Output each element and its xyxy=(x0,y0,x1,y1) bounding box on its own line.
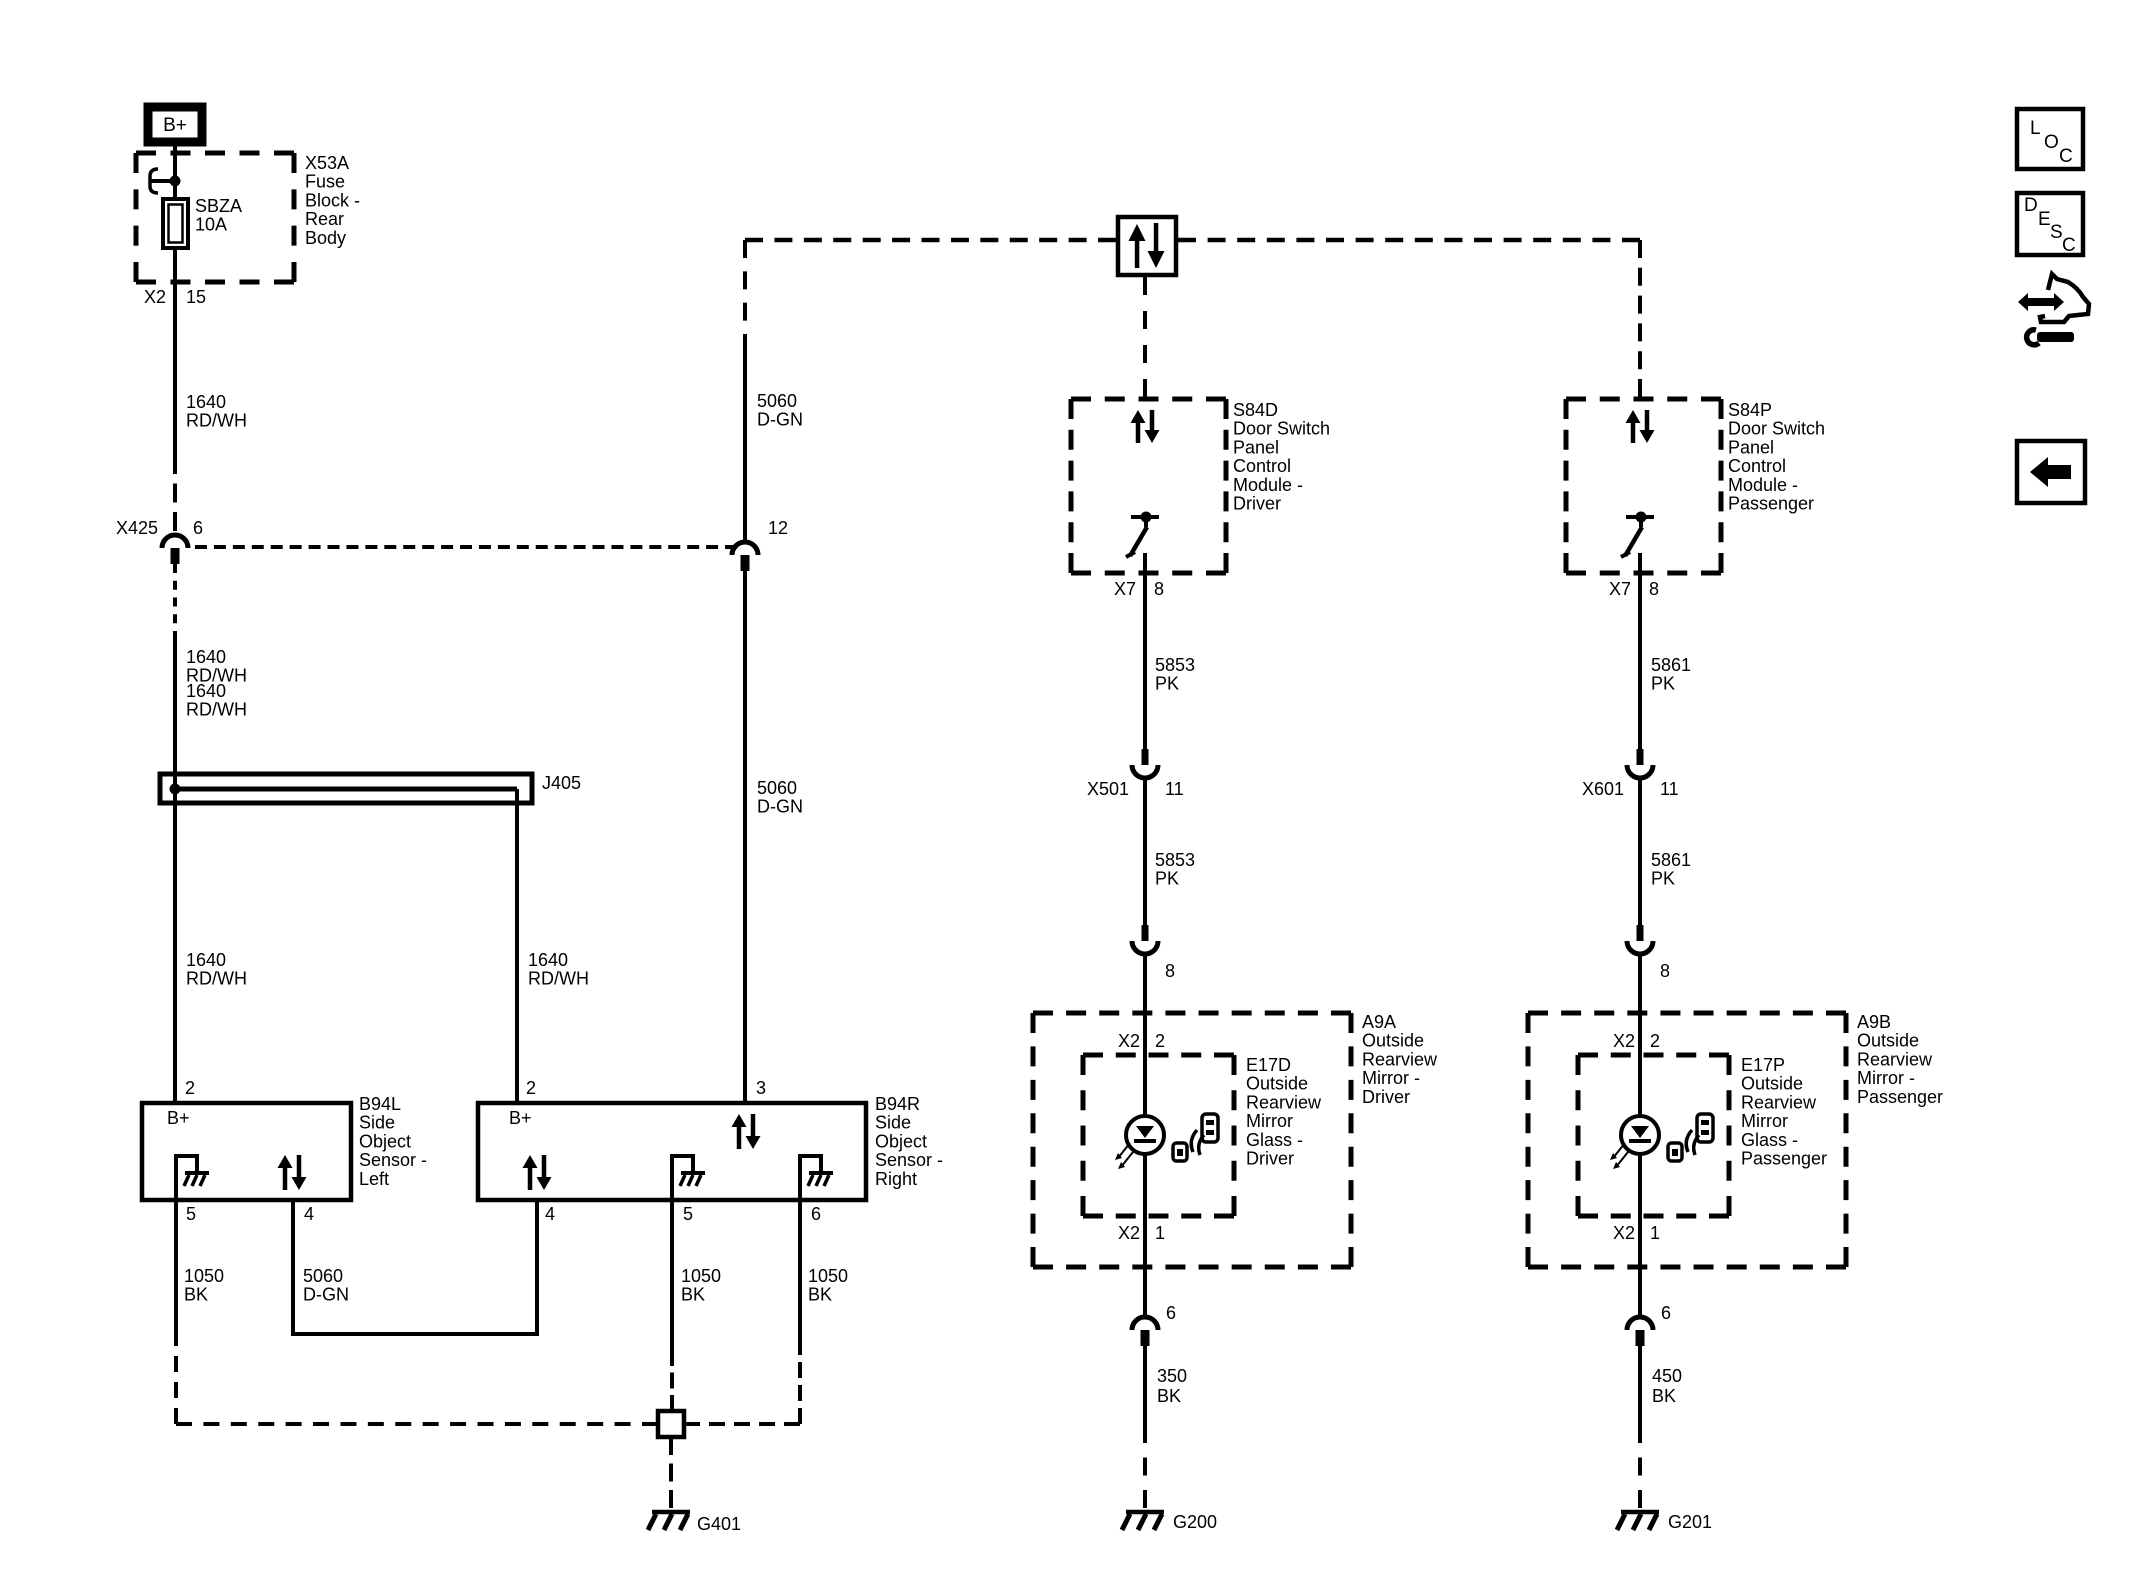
svg-text:Outside: Outside xyxy=(1246,1074,1308,1094)
svg-text:450: 450 xyxy=(1652,1366,1682,1386)
svg-text:BK: BK xyxy=(1652,1386,1676,1406)
svg-text:Left: Left xyxy=(359,1169,389,1189)
svg-text:X601: X601 xyxy=(1582,779,1624,799)
svg-text:Module -: Module - xyxy=(1728,475,1798,495)
svg-text:Side: Side xyxy=(875,1113,911,1133)
svg-text:Mirror -: Mirror - xyxy=(1362,1068,1420,1088)
svg-text:3: 3 xyxy=(756,1078,766,1098)
svg-text:G401: G401 xyxy=(697,1514,741,1534)
svg-text:G201: G201 xyxy=(1668,1512,1712,1532)
svg-text:J405: J405 xyxy=(542,773,581,793)
svg-text:5853: 5853 xyxy=(1155,655,1195,675)
svg-text:Body: Body xyxy=(305,228,346,248)
svg-text:O: O xyxy=(2044,132,2059,153)
svg-text:350: 350 xyxy=(1157,1366,1187,1386)
svg-text:Control: Control xyxy=(1728,456,1786,476)
svg-text:Module -: Module - xyxy=(1233,475,1303,495)
svg-text:8: 8 xyxy=(1649,579,1659,599)
svg-text:Rear: Rear xyxy=(305,209,344,229)
svg-text:2: 2 xyxy=(1650,1031,1660,1051)
svg-text:Mirror -: Mirror - xyxy=(1857,1068,1915,1088)
svg-text:Glass -: Glass - xyxy=(1246,1130,1303,1150)
svg-text:Driver: Driver xyxy=(1362,1087,1410,1107)
svg-text:X2: X2 xyxy=(1613,1031,1635,1051)
svg-text:Mirror: Mirror xyxy=(1741,1111,1788,1131)
svg-text:12: 12 xyxy=(768,518,788,538)
svg-text:15: 15 xyxy=(186,287,206,307)
svg-text:D-GN: D-GN xyxy=(757,410,803,430)
svg-text:6: 6 xyxy=(1166,1303,1176,1323)
svg-text:6: 6 xyxy=(1661,1303,1671,1323)
svg-text:PK: PK xyxy=(1155,869,1179,889)
svg-text:6: 6 xyxy=(811,1204,821,1224)
svg-text:5: 5 xyxy=(683,1204,693,1224)
svg-text:Object: Object xyxy=(359,1131,411,1151)
svg-text:5060: 5060 xyxy=(757,778,797,798)
svg-text:Panel: Panel xyxy=(1233,437,1279,457)
svg-text:1050: 1050 xyxy=(808,1266,848,1286)
svg-text:8: 8 xyxy=(1660,961,1670,981)
svg-text:8: 8 xyxy=(1165,961,1175,981)
svg-text:2: 2 xyxy=(185,1078,195,1098)
svg-text:11: 11 xyxy=(1165,779,1184,799)
svg-text:Glass -: Glass - xyxy=(1741,1130,1798,1150)
svg-text:2: 2 xyxy=(526,1078,536,1098)
svg-text:Side: Side xyxy=(359,1113,395,1133)
svg-text:D-GN: D-GN xyxy=(757,797,803,817)
svg-text:D: D xyxy=(2024,195,2038,216)
svg-text:RD/WH: RD/WH xyxy=(186,700,247,720)
svg-text:X7: X7 xyxy=(1114,579,1136,599)
svg-text:Driver: Driver xyxy=(1246,1149,1294,1169)
svg-text:BK: BK xyxy=(184,1285,208,1305)
svg-text:S: S xyxy=(2050,222,2063,243)
svg-text:B94R: B94R xyxy=(875,1094,920,1114)
svg-text:5861: 5861 xyxy=(1651,655,1691,675)
svg-text:Fuse: Fuse xyxy=(305,172,345,192)
svg-text:BK: BK xyxy=(808,1285,832,1305)
svg-text:PK: PK xyxy=(1651,674,1675,694)
svg-text:X2: X2 xyxy=(1118,1031,1140,1051)
svg-text:X425: X425 xyxy=(116,518,158,538)
svg-text:X2: X2 xyxy=(1613,1223,1635,1243)
svg-text:1640: 1640 xyxy=(186,392,226,412)
svg-text:Passenger: Passenger xyxy=(1728,494,1814,514)
svg-text:Mirror: Mirror xyxy=(1246,1111,1293,1131)
svg-text:E17D: E17D xyxy=(1246,1055,1291,1075)
svg-text:A9B: A9B xyxy=(1857,1012,1891,1032)
svg-text:6: 6 xyxy=(193,518,203,538)
svg-text:BK: BK xyxy=(1157,1386,1181,1406)
svg-text:1: 1 xyxy=(1650,1223,1660,1243)
svg-text:4: 4 xyxy=(304,1204,314,1224)
svg-text:Sensor -: Sensor - xyxy=(359,1150,427,1170)
svg-text:X7: X7 xyxy=(1609,579,1631,599)
svg-text:Right: Right xyxy=(875,1169,917,1189)
svg-text:C: C xyxy=(2062,235,2076,256)
svg-text:Outside: Outside xyxy=(1362,1031,1424,1051)
svg-text:Outside: Outside xyxy=(1741,1074,1803,1094)
svg-text:E17P: E17P xyxy=(1741,1055,1785,1075)
svg-text:D-GN: D-GN xyxy=(303,1285,349,1305)
svg-text:Rearview: Rearview xyxy=(1741,1092,1817,1112)
svg-text:1640: 1640 xyxy=(186,647,226,667)
svg-text:C: C xyxy=(2059,146,2073,167)
svg-text:2: 2 xyxy=(1155,1031,1165,1051)
svg-text:8: 8 xyxy=(1154,579,1164,599)
svg-text:A9A: A9A xyxy=(1362,1012,1396,1032)
svg-text:SBZA: SBZA xyxy=(195,196,242,216)
svg-text:BK: BK xyxy=(681,1285,705,1305)
svg-text:Passenger: Passenger xyxy=(1857,1087,1943,1107)
svg-text:5: 5 xyxy=(186,1204,196,1224)
svg-text:5060: 5060 xyxy=(303,1266,343,1286)
svg-text:S84D: S84D xyxy=(1233,400,1278,420)
svg-text:Object: Object xyxy=(875,1131,927,1151)
svg-text:X53A: X53A xyxy=(305,153,349,173)
svg-text:Rearview: Rearview xyxy=(1246,1092,1322,1112)
svg-text:G200: G200 xyxy=(1173,1512,1217,1532)
svg-text:RD/WH: RD/WH xyxy=(186,411,247,431)
svg-text:Block -: Block - xyxy=(305,190,360,210)
svg-text:X501: X501 xyxy=(1087,779,1129,799)
svg-text:RD/WH: RD/WH xyxy=(186,969,247,989)
svg-text:1640: 1640 xyxy=(186,681,226,701)
svg-text:Control: Control xyxy=(1233,456,1291,476)
svg-text:E: E xyxy=(2038,209,2051,230)
svg-text:Outside: Outside xyxy=(1857,1031,1919,1051)
svg-text:1: 1 xyxy=(1155,1223,1165,1243)
svg-text:B+: B+ xyxy=(167,1108,190,1128)
svg-text:Sensor -: Sensor - xyxy=(875,1150,943,1170)
svg-text:X2: X2 xyxy=(1118,1223,1140,1243)
svg-text:RD/WH: RD/WH xyxy=(528,969,589,989)
svg-text:Panel: Panel xyxy=(1728,437,1774,457)
svg-text:5861: 5861 xyxy=(1651,850,1691,870)
svg-text:Passenger: Passenger xyxy=(1741,1149,1827,1169)
svg-text:11: 11 xyxy=(1660,779,1679,799)
svg-text:1050: 1050 xyxy=(184,1266,224,1286)
svg-text:Driver: Driver xyxy=(1233,494,1281,514)
svg-text:4: 4 xyxy=(545,1204,555,1224)
svg-text:PK: PK xyxy=(1651,869,1675,889)
svg-text:Rearview: Rearview xyxy=(1362,1049,1438,1069)
svg-text:Door Switch: Door Switch xyxy=(1233,419,1330,439)
svg-text:S84P: S84P xyxy=(1728,400,1772,420)
svg-text:5853: 5853 xyxy=(1155,850,1195,870)
svg-text:1050: 1050 xyxy=(681,1266,721,1286)
svg-text:L: L xyxy=(2030,118,2041,139)
svg-text:Rearview: Rearview xyxy=(1857,1049,1933,1069)
svg-text:1640: 1640 xyxy=(528,950,568,970)
svg-text:5060: 5060 xyxy=(757,391,797,411)
svg-text:B+: B+ xyxy=(509,1108,532,1128)
svg-text:B+: B+ xyxy=(163,115,187,136)
svg-text:PK: PK xyxy=(1155,674,1179,694)
svg-text:10A: 10A xyxy=(195,215,227,235)
svg-text:B94L: B94L xyxy=(359,1094,401,1114)
svg-text:Door Switch: Door Switch xyxy=(1728,419,1825,439)
svg-text:1640: 1640 xyxy=(186,950,226,970)
svg-text:X2: X2 xyxy=(144,287,166,307)
